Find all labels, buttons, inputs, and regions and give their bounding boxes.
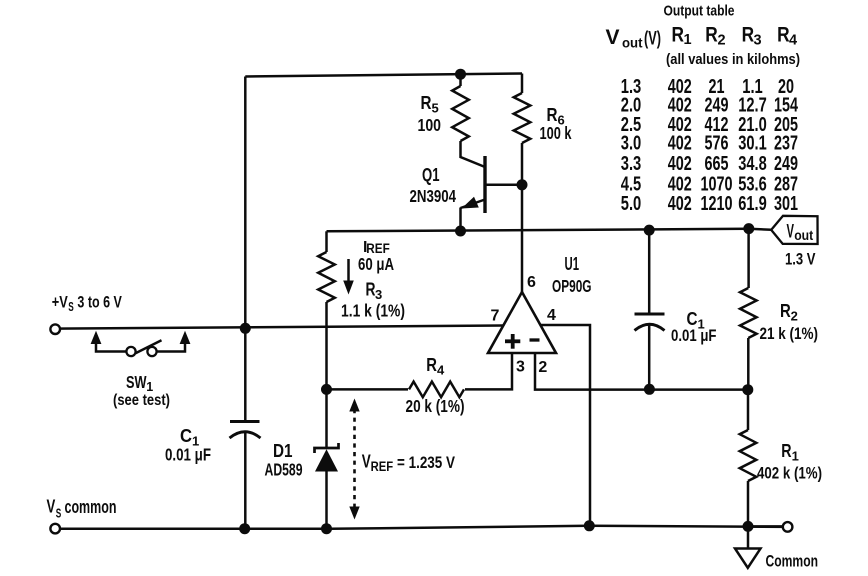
label table row Vout=2.5: [621, 113, 798, 136]
svg-text:4: 4: [789, 33, 797, 49]
switch SW1: [91, 331, 191, 356]
resistor R4: [409, 382, 464, 398]
svg-text:S: S: [68, 300, 74, 314]
label resistor R2 designator: [780, 301, 798, 324]
label table row Vout=2.0: [621, 94, 799, 117]
diode D1 AD589 (zener-style bar): [315, 443, 339, 472]
svg-text:R: R: [742, 24, 755, 47]
svg-text:+V: +V: [52, 293, 68, 312]
wire common rail to right terminal: [748, 525, 783, 528]
wire R4 left lead from reference node: [327, 388, 409, 391]
label R4 value 20 k (1%): [406, 396, 465, 416]
label Q1 value 2N3904: [410, 186, 457, 206]
svg-text:2: 2: [718, 33, 726, 49]
wire C1 right bottom lead: [648, 325, 651, 390]
svg-text:21 k (1%): 21 k (1%): [760, 324, 819, 343]
VREF dashed measurement arrow: [349, 399, 359, 520]
label pin 6: [527, 274, 536, 291]
resistor R6: [514, 93, 531, 143]
wire bottom common rail: [55, 526, 787, 529]
svg-text:R: R: [547, 105, 558, 125]
label op-amp U1 designator: [565, 254, 580, 274]
terminal +Vs input: [50, 324, 60, 334]
ground symbol Common: [735, 526, 761, 567]
wire R6 top lead: [521, 74, 524, 94]
label SW1 note (see test): [113, 392, 170, 409]
svg-text:60 μA: 60 μA: [358, 254, 394, 274]
wire output rail (Vout node): [327, 229, 750, 232]
svg-text:Q1: Q1: [422, 165, 440, 185]
junction D1 / common rail: [321, 523, 332, 534]
svg-text:3: 3: [516, 358, 525, 375]
svg-text:1.1 k (1%): 1.1 k (1%): [341, 301, 405, 321]
op-amp U1 OP90G: [488, 292, 556, 353]
terminal common right: [783, 522, 793, 532]
label R1 value 402 k (1%): [757, 464, 822, 483]
svg-text:C: C: [180, 426, 192, 446]
label table header Vout (V): [606, 26, 662, 51]
label output table title: [664, 3, 735, 20]
svg-text:0.01 μF: 0.01 μF: [165, 445, 211, 465]
svg-text:= 1.235 V: = 1.235 V: [397, 453, 456, 472]
svg-text:REF: REF: [371, 459, 394, 474]
svg-text:S: S: [56, 507, 62, 521]
label transistor Q1 designator: [422, 165, 440, 185]
svg-text:out: out: [622, 36, 643, 51]
label resistor R6 designator: [547, 105, 565, 128]
label pin 4: [547, 307, 556, 324]
wire op-amp pin 6 / R6 bottom / Q1 base column: [521, 143, 524, 292]
IREF current arrow: [343, 259, 354, 295]
wire C1 left bottom lead: [244, 431, 247, 529]
label VREF = 1.235 V: [362, 452, 456, 475]
wire R5 top lead: [459, 74, 462, 86]
svg-text:R: R: [421, 93, 432, 113]
label resistor R4 designator: [426, 355, 445, 378]
junction R2 top / Vout: [743, 223, 754, 234]
svg-text:1: 1: [684, 32, 692, 48]
svg-text:out: out: [794, 227, 813, 243]
label table row Vout=5.0: [621, 192, 798, 215]
svg-text:7: 7: [491, 308, 500, 325]
junction Q1 base / pin6 column: [517, 179, 528, 190]
label Vs common: [47, 497, 117, 521]
label table header R2: [705, 24, 725, 49]
label switch SW1 designator: [126, 372, 153, 394]
junction C1 right bottom / feedback: [644, 384, 655, 395]
svg-text:R: R: [777, 24, 790, 47]
svg-text:402: 402: [668, 192, 692, 215]
wire D1 to common rail: [325, 471, 328, 529]
label IREF: [363, 239, 390, 256]
svg-text:R: R: [366, 279, 376, 299]
label C1 right value 0.01 uF: [671, 327, 717, 345]
svg-text:3: 3: [754, 33, 762, 49]
wire R3 to D1 vertical: [325, 302, 328, 448]
svg-text:402 k (1%): 402 k (1%): [757, 464, 822, 483]
svg-text:D1: D1: [273, 441, 293, 461]
svg-text:1: 1: [792, 449, 799, 464]
junction pin4 / common rail: [584, 520, 595, 531]
label table row Vout=3.3: [621, 152, 798, 175]
label R6 value 100 k: [540, 123, 572, 143]
svg-text:common: common: [65, 497, 117, 517]
svg-text:R: R: [781, 441, 791, 461]
svg-text:AD589: AD589: [265, 460, 303, 480]
label C1 left value 0.01 uF: [165, 445, 211, 465]
label R2 value 21 k (1%): [760, 324, 819, 343]
svg-text:R: R: [780, 301, 791, 321]
label pin 2: [538, 359, 547, 376]
svg-text:V: V: [606, 26, 620, 49]
svg-text:C: C: [687, 309, 698, 329]
junction R1 / common rail: [743, 521, 754, 532]
label table row Vout=4.5: [621, 173, 798, 196]
junction C1 left / +Vs rail: [240, 323, 251, 334]
wire left vertical from top rail down to C1: [244, 77, 247, 422]
label table header R4: [777, 24, 797, 49]
junction C1 left / common rail: [239, 523, 250, 534]
wire R1 top lead: [747, 390, 750, 430]
label table header R1: [672, 24, 692, 49]
svg-text:6: 6: [527, 274, 536, 291]
junction R2/R1/pin2 node: [742, 384, 753, 395]
label table units note: [666, 52, 800, 68]
svg-text:R: R: [672, 24, 685, 47]
svg-text:1210: 1210: [701, 192, 733, 215]
label pin 7: [491, 308, 500, 325]
wire R2 top lead: [747, 229, 750, 288]
label resistor R1 designator: [781, 441, 799, 464]
resistor R1: [740, 430, 757, 481]
svg-text:R: R: [426, 355, 437, 375]
resistor R2: [740, 288, 757, 338]
svg-text:4: 4: [547, 307, 556, 324]
svg-text:OP90G: OP90G: [552, 276, 592, 296]
label R3 value 1.1 k (1%): [341, 301, 405, 321]
wire Q1 emitter to output rail: [459, 208, 462, 232]
wire +Vs rail to op-amp pin 7: [55, 326, 503, 329]
svg-text:20 k (1%): 20 k (1%): [406, 396, 465, 416]
svg-text:100: 100: [418, 115, 442, 135]
terminal Vs common: [50, 524, 60, 534]
transistor Q1 2N3904: [461, 156, 486, 213]
label capacitor C1 right designator: [687, 309, 705, 332]
svg-text:SW: SW: [126, 372, 147, 392]
svg-text:3 to 6 V: 3 to 6 V: [77, 293, 122, 312]
label diode D1 designator: [273, 441, 293, 461]
label table header R3: [742, 24, 762, 49]
wire C1 right top lead: [648, 230, 651, 314]
wire R2 bottom lead: [747, 338, 750, 390]
svg-text:1.3 V: 1.3 V: [785, 250, 816, 269]
wire op-amp pin 2 to feedback node: [535, 353, 748, 390]
svg-text:0.01 μF: 0.01 μF: [671, 327, 717, 345]
svg-text:2: 2: [538, 359, 547, 376]
wire Q1 base to pin6 column: [485, 184, 522, 187]
svg-text:4: 4: [437, 363, 445, 378]
label pin 3: [516, 358, 525, 375]
svg-text:V: V: [787, 222, 795, 243]
resistor R5: [452, 86, 469, 141]
svg-text:301: 301: [774, 192, 798, 215]
wire R1 bottom lead: [747, 481, 750, 526]
label Vout value 1.3 V: [785, 250, 816, 269]
label resistor R5 designator: [421, 93, 439, 116]
svg-text:2: 2: [791, 309, 798, 324]
svg-text:R: R: [705, 24, 718, 47]
label D1 value AD589: [265, 460, 303, 480]
label IREF value 60 uA: [358, 254, 394, 274]
label +Vs 3 to 6 V: [52, 293, 123, 315]
junction R5 top / supply rail: [455, 69, 466, 80]
label Vout flag text: [787, 222, 814, 243]
wire R3 top lead from output rail: [325, 231, 328, 252]
wire R5 bottom lead to Q1 collector: [461, 141, 486, 167]
label U1 value OP90G: [552, 276, 592, 296]
label resistor R3 designator: [366, 279, 383, 302]
label capacitor C1 left designator: [180, 426, 199, 449]
node Vout output flag: [771, 216, 817, 244]
svg-text:5.0: 5.0: [621, 192, 642, 215]
junction Q1 emitter / output rail: [455, 226, 466, 237]
label Common: [766, 552, 819, 571]
svg-text:(V): (V): [644, 29, 661, 50]
capacitor C1 (left, 0.01uF): [230, 422, 261, 439]
label R5 value 100: [418, 115, 442, 135]
svg-text:U1: U1: [565, 254, 580, 274]
svg-text:Common: Common: [766, 552, 819, 571]
capacitor C1 (right, 0.01uF): [635, 314, 665, 331]
junction C1 right top / output rail: [644, 225, 655, 236]
svg-text:Output table: Output table: [664, 3, 735, 20]
resistor R3: [318, 252, 335, 302]
wire top supply rail: [245, 74, 522, 77]
svg-text:5: 5: [432, 101, 439, 116]
svg-text:2N3904: 2N3904: [410, 186, 457, 206]
label table row Vout=1.3: [621, 75, 794, 98]
svg-text:(all values in kilohms): (all values in kilohms): [666, 52, 800, 68]
svg-text:100 k: 100 k: [540, 123, 572, 143]
svg-text:V: V: [47, 497, 56, 517]
wire op-amp pin 4 to common rail: [541, 325, 590, 526]
wire output rail to Vout flag: [749, 229, 771, 230]
label table row Vout=3.0: [621, 132, 798, 155]
svg-text:V: V: [362, 452, 371, 472]
svg-text:61.9: 61.9: [738, 192, 767, 215]
wire R4 right lead to op-amp pin 3: [465, 353, 512, 389]
svg-text:(see test): (see test): [113, 392, 170, 409]
junction R3/D1/R4 reference node: [321, 384, 332, 395]
